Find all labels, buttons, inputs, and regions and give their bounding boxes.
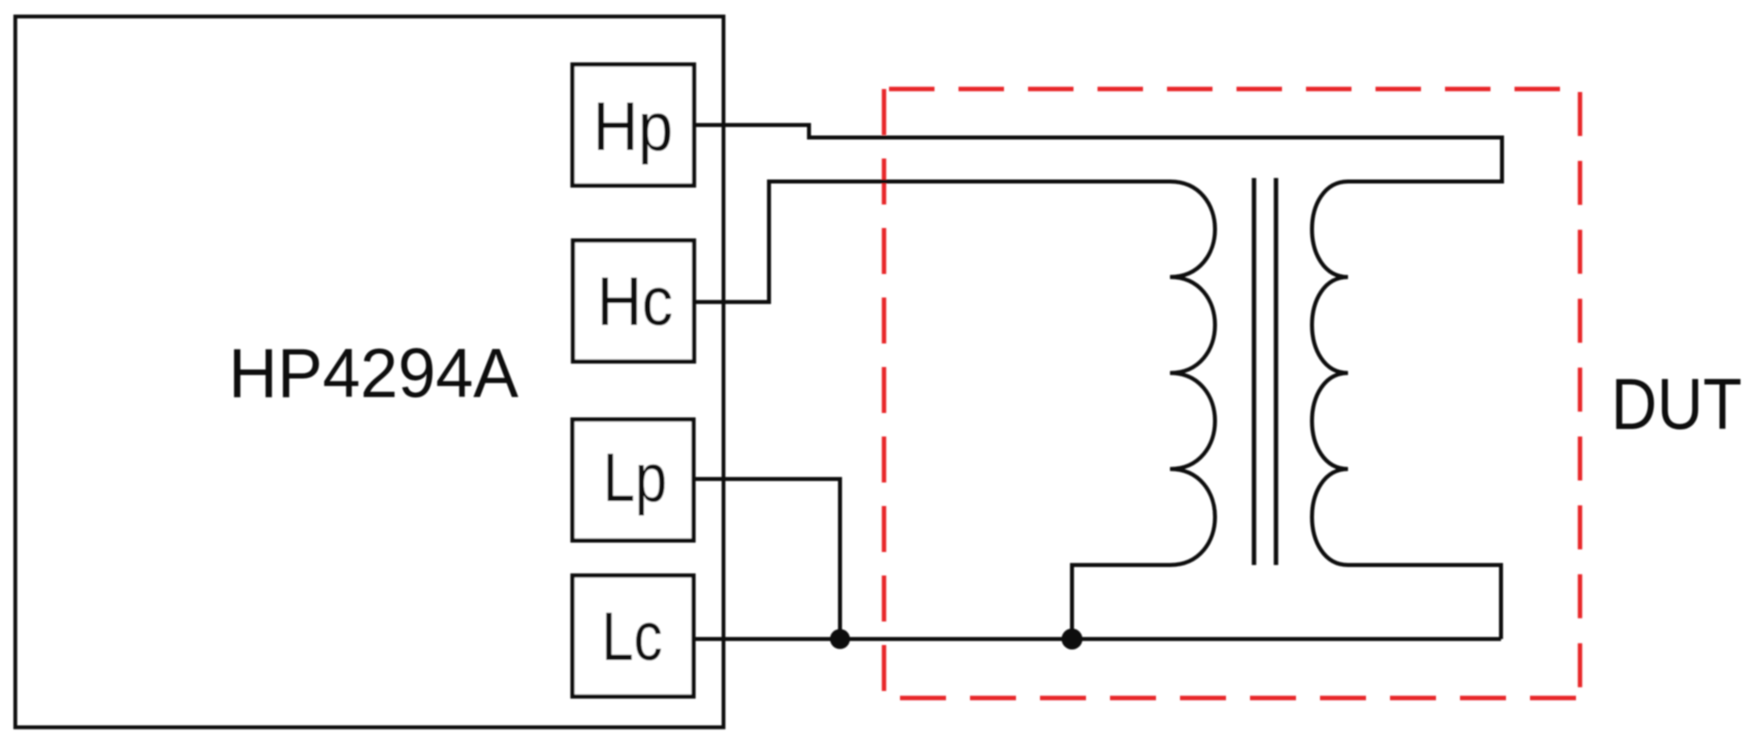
svg-text:HP4294A: HP4294A (229, 334, 519, 412)
junction primary/Lc (1062, 629, 1083, 650)
DUT enclosure right edge (red dashed) (1578, 92, 1582, 698)
transformer secondary winding L2 (1312, 182, 1348, 566)
terminal box Lp (573, 420, 694, 541)
wire secondary bottom (1348, 565, 1501, 639)
terminal box Hc (573, 241, 694, 362)
DUT enclosure top edge (red dashed) (889, 87, 1580, 91)
DUT enclosure bottom edge (red dashed) (900, 696, 1580, 700)
terminal box Lc (573, 576, 694, 697)
svg-text:Hc: Hc (597, 263, 673, 340)
terminal box Hp (573, 65, 695, 186)
DUT enclosure left edge (red dashed) (882, 89, 886, 698)
svg-text:Lc: Lc (602, 598, 663, 675)
svg-text:Lp: Lp (603, 439, 667, 516)
svg-text:Hp: Hp (593, 88, 673, 165)
svg-text:DUT: DUT (1611, 365, 1742, 445)
wire Hc to primary top (696, 182, 1170, 303)
wire Hp to transformer top (696, 125, 1502, 182)
wire primary bottom to Lc net (1072, 565, 1170, 639)
transformer primary winding L1 (1170, 182, 1215, 566)
transformer core (1254, 178, 1276, 565)
wire Lc net (695, 637, 1501, 641)
instrument box HP4294A (15, 17, 723, 728)
wire Lp down to Lc net (695, 479, 840, 639)
junction Lp/Lc (830, 629, 850, 649)
